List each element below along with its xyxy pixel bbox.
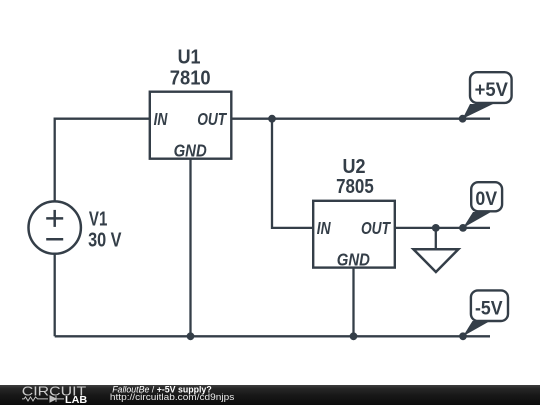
junction node C (ground tap) [432, 224, 440, 232]
junction node F (U2 GND on bottom net) [350, 332, 358, 340]
wire: U2 GND down to bottom net [352, 268, 354, 337]
svg-text:OUT: OUT [361, 219, 391, 238]
label V1 designator and value [88, 207, 122, 251]
junction node B (+5V tap) [459, 115, 467, 123]
label U2 designator and value [336, 156, 374, 197]
svg-text:7810: 7810 [170, 66, 211, 89]
regulator U1 (7810) [150, 92, 232, 159]
U2 pin labels [317, 218, 391, 269]
wire: ground stub below node C [435, 228, 437, 250]
wire: V1 negative terminal down to bottom net [54, 254, 56, 337]
svg-text:-5V: -5V [475, 297, 503, 319]
wire: V1 positive terminal up and right to U1 IN [55, 119, 150, 202]
svg-text:7805: 7805 [336, 175, 374, 198]
svg-text:OUT: OUT [197, 111, 227, 130]
svg-text:http://circuitlab.com/cd9njps: http://circuitlab.com/cd9njps [110, 393, 235, 403]
junction node D (0V tap) [459, 224, 467, 232]
svg-text:U1: U1 [178, 47, 201, 69]
label U1 designator and value [170, 47, 211, 90]
wire: U1 OUT to +5V net (horizontal) [231, 118, 490, 120]
svg-text:30 V: 30 V [88, 228, 122, 251]
net flag 0V [463, 182, 502, 228]
U1 pin labels [154, 109, 228, 161]
svg-text:IN: IN [317, 218, 331, 238]
svg-text:+5V: +5V [475, 79, 509, 100]
junction node A (U1 OUT / U2 IN) [268, 115, 276, 123]
wire: U2 OUT to 0V net (horizontal) [395, 227, 490, 229]
svg-text:IN: IN [154, 109, 168, 129]
net flag +5V [463, 72, 512, 119]
voltage source V1 [29, 201, 81, 253]
logo resistor zigzag and diode [22, 396, 64, 402]
svg-text:GND: GND [174, 140, 207, 161]
wire: bottom -5V net (horizontal) [55, 335, 490, 337]
junction node E (U1 GND on bottom net) [187, 332, 195, 340]
footer bar [0, 385, 540, 405]
junction node G (-5V tap) [459, 332, 467, 340]
svg-text:V1: V1 [89, 207, 107, 230]
ground symbol [413, 249, 458, 272]
net flag -5V [463, 290, 508, 336]
regulator U2 (7805) [313, 201, 395, 268]
wire: U1 GND down to bottom net [189, 159, 191, 337]
CircuitLab logo wordmark CIRCUIT [22, 385, 87, 399]
svg-text:0V: 0V [475, 188, 497, 210]
svg-text:GND: GND [337, 249, 370, 270]
wire: node A down to U2 IN [272, 119, 313, 228]
svg-text:LAB: LAB [65, 395, 87, 405]
